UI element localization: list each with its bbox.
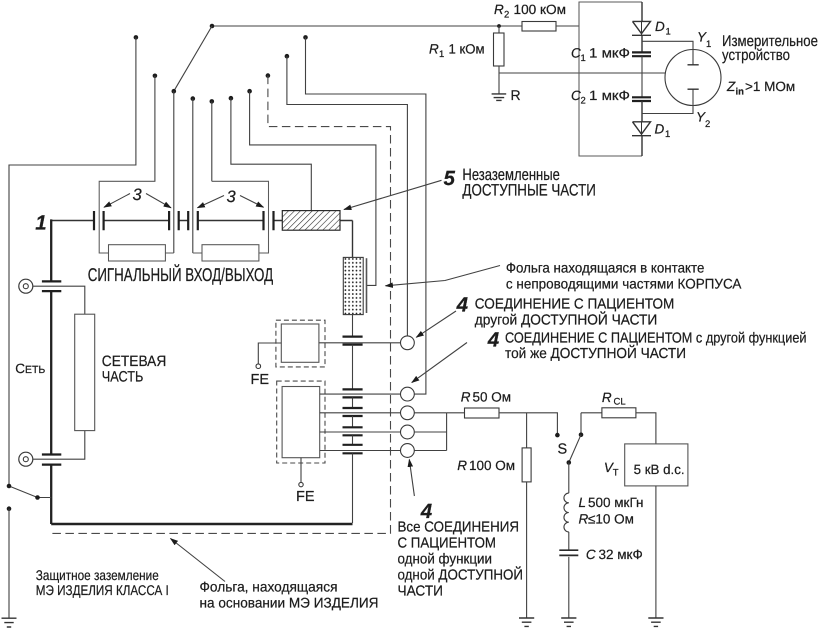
svg-text:FE: FE <box>296 489 315 505</box>
svg-text:100 кОм: 100 кОм <box>514 2 567 17</box>
svg-text:≤10 Ом: ≤10 Ом <box>588 512 634 527</box>
svg-text:4: 4 <box>456 294 469 317</box>
svg-text:Все СОЕДИНЕНИЯ: Все СОЕДИНЕНИЯ <box>398 520 520 536</box>
inductor L 500 мкГн <box>564 493 569 532</box>
svg-text:L: L <box>579 495 587 510</box>
label Все СОЕДИНЕНИЯ С ПАЦИЕНТОМ одной функции одной ДОСТУПНОЙ ЧАСТИ <box>398 520 524 600</box>
svg-text:с непроводящими частями КОРПУС: с непроводящими частями КОРПУСА <box>506 276 742 292</box>
svg-text:500 мкГн: 500 мкГн <box>588 495 643 510</box>
arrow 3 to left capacitor module1 <box>104 194 130 208</box>
mains part box <box>75 314 95 430</box>
FE box 1 dashed <box>276 320 325 367</box>
label R<=10 Ом <box>579 512 634 527</box>
resistor R 50 Ом <box>465 408 500 418</box>
diode D1 bottom <box>632 101 651 156</box>
wire top horizontal from terminal to R2 <box>212 25 522 27</box>
label СОЕДИНЕНИЕ С ПАЦИЕНТОМ с другой функцией той же ДОСТУПНОЙ ЧАСТИ <box>505 330 807 362</box>
resistor R2 <box>522 22 556 32</box>
label СЕТЕВАЯ ЧАСТЬ <box>102 353 167 385</box>
svg-text:1 мкФ: 1 мкФ <box>589 88 630 103</box>
terminal T2 dot <box>210 24 215 29</box>
capacitor plates mains entry bottom <box>42 455 61 465</box>
FE box 2 dashed <box>277 381 325 463</box>
label Фольга, находящаяся на основании МЭ ИЗДЕЛИЯ <box>200 579 379 611</box>
svg-text:1 мкФ: 1 мкФ <box>589 46 630 61</box>
diode D1 top <box>632 2 651 52</box>
wire T8 to foil plate <box>250 91 376 285</box>
wire mid node R to measuring device <box>499 72 665 74</box>
svg-text:S: S <box>558 442 568 458</box>
wire T1 to protective earth rail <box>9 37 136 486</box>
FE box 2 inner <box>282 387 320 458</box>
patient connection circle 2 <box>401 387 415 401</box>
svg-text:ЧАСТИ: ЧАСТИ <box>398 584 444 600</box>
label Фольга находящаяся в контакте с непроводящими частями КОРПУСА <box>506 260 742 292</box>
svg-text:ДОСТУПНЫЕ ЧАСТИ: ДОСТУПНЫЕ ЧАСТИ <box>462 182 596 200</box>
svg-text:50 Ом: 50 Ом <box>473 390 512 405</box>
node junction R1/R2 <box>497 24 501 28</box>
svg-text:5: 5 <box>444 167 456 190</box>
label VT <box>604 460 619 479</box>
node PE bottom <box>7 506 12 511</box>
svg-text:R: R <box>511 87 521 103</box>
arrow block2 to patient connection 2 <box>412 343 467 383</box>
patient connection circle 1 <box>401 336 415 350</box>
svg-text:1 кОм: 1 кОм <box>449 42 485 57</box>
node PE stub <box>35 495 40 500</box>
wire column to enclosure bottom <box>352 453 354 523</box>
source VT box <box>625 444 688 486</box>
svg-text:R: R <box>494 2 504 17</box>
resistor R 100 Ом <box>522 448 531 482</box>
wire T7 to hatched accessible part <box>231 98 311 210</box>
signal module 2 outline <box>193 181 269 253</box>
terminal T10 dot <box>285 54 290 59</box>
wire T3 to module1 top <box>154 76 156 182</box>
svg-text:устройство: устройство <box>722 47 790 64</box>
wire junction to R1 <box>498 26 500 33</box>
wire T10 to patient connection 1 <box>287 56 408 336</box>
label L 500 мкГн <box>579 495 644 510</box>
label СОЕДИНЕНИЕ С ПАЦИЕНТОМ другой ДОСТУПНОЙ ЧАСТИ <box>475 297 675 329</box>
capacitor pair patient 1 <box>343 337 363 345</box>
arrow foil bottom label to dashed line <box>171 539 226 582</box>
svg-text:другой ДОСТУПНОЙ ЧАСТИ: другой ДОСТУПНОЙ ЧАСТИ <box>475 311 658 329</box>
enclosure top edge segments <box>51 221 352 258</box>
label C 32 мкФ <box>586 547 643 562</box>
svg-text:С ПАЦИЕНТОМ: С ПАЦИЕНТОМ <box>398 536 497 552</box>
wire mains top to mains part <box>33 286 85 314</box>
svg-text:100 Ом: 100 Ом <box>469 458 515 473</box>
svg-text:одной функции: одной функции <box>398 552 493 568</box>
wire FE1 to patient connection 1 <box>319 342 401 344</box>
label R2 100 кОм <box>494 2 566 21</box>
svg-text:R: R <box>579 512 589 527</box>
measuring network box <box>579 2 642 156</box>
svg-text:3: 3 <box>133 186 143 204</box>
wire S pole to inductor <box>568 463 570 494</box>
svg-text:R: R <box>429 42 439 57</box>
wire junction to R100 <box>526 413 528 448</box>
svg-text:C: C <box>586 547 596 562</box>
wire VT to ground <box>655 486 657 618</box>
wire mains bottom to mains part <box>33 431 85 460</box>
wire T11 to patient connection 2 <box>306 37 426 394</box>
patient connection circle 3 <box>401 406 415 420</box>
terminal T3 dot <box>153 74 158 79</box>
wire FE2 to patient connection 4 <box>320 431 401 433</box>
svg-text:CL: CL <box>614 397 626 408</box>
measuring device circle <box>665 50 721 106</box>
wire C to ground <box>568 557 570 618</box>
patient connection circle 4 <box>401 425 415 439</box>
capacitor pair patient 2 <box>343 389 363 397</box>
wire column <box>352 435 354 445</box>
wire patient bus vertical <box>446 413 448 451</box>
plate Y1 <box>688 64 699 66</box>
wire Y1 <box>642 41 693 65</box>
wire module1 right edge <box>173 91 175 253</box>
svg-text:D: D <box>655 122 665 137</box>
svg-text:2: 2 <box>581 96 586 107</box>
FE box 1 inner <box>281 324 319 362</box>
wire R1 to ground R <box>498 66 500 94</box>
wire PE to ground <box>8 509 10 618</box>
wire FE2 stub <box>300 458 302 483</box>
svg-text:ЧАСТЬ: ЧАСТЬ <box>102 368 144 385</box>
svg-text:2: 2 <box>705 119 710 130</box>
svg-text:R: R <box>602 390 612 405</box>
wire patient 4 to bus <box>414 431 446 433</box>
resistor box module 2 <box>202 245 259 261</box>
switch S left contact <box>555 433 560 438</box>
wire inductor to capacitor C <box>568 532 570 551</box>
svg-text:1: 1 <box>706 39 711 50</box>
switch S right contact <box>579 432 584 437</box>
svg-text:C: C <box>571 88 581 103</box>
svg-text:FE: FE <box>251 372 270 388</box>
label Измерительное устройство <box>722 33 818 64</box>
terminal T8 dot <box>247 89 252 94</box>
svg-text:Фольга находящаяся в контакте: Фольга находящаяся в контакте <box>506 260 705 276</box>
label R 50 Ом <box>461 390 511 405</box>
svg-text:3: 3 <box>227 188 237 206</box>
terminal T5 dot <box>191 96 196 101</box>
wire column <box>352 345 354 390</box>
capacitor pair patient 4 <box>343 427 363 435</box>
wire FE2 to patient connection 5 <box>320 450 401 452</box>
svg-text:2: 2 <box>504 10 509 21</box>
wire Y2 <box>642 89 693 113</box>
terminal T6 dot <box>210 99 215 104</box>
wire column <box>352 416 354 427</box>
label C1 1 мкФ <box>571 46 630 64</box>
signal module 1 outline <box>99 181 174 253</box>
svg-text:СОЕДИНЕНИЕ С ПАЦИЕНТОМ с друго: СОЕДИНЕНИЕ С ПАЦИЕНТОМ с другой функцией <box>505 330 807 346</box>
node PE top <box>7 484 12 489</box>
wire R50 to switch S <box>499 413 557 433</box>
wire diagonal T2 to module1 right edge <box>174 26 212 91</box>
label Защитное заземление МЭ ИЗДЕЛИЯ КЛАССА I <box>36 567 169 598</box>
plate Y2 <box>688 88 699 90</box>
wire patient 5 to bus <box>414 450 446 452</box>
wire RCL to VT box <box>636 413 656 444</box>
svg-text:той же ДОСТУПНОЙ ЧАСТИ: той же ДОСТУПНОЙ ЧАСТИ <box>505 344 686 362</box>
capacitor plates mains entry top <box>42 281 61 291</box>
ground PE <box>2 618 17 627</box>
switch S pole <box>567 460 572 465</box>
svg-text:СЕТЬ: СЕТЬ <box>15 361 45 376</box>
wire bus to R 50 <box>447 412 465 414</box>
terminal T1 dot <box>134 35 139 40</box>
wire T5 module2 left edge <box>192 99 194 253</box>
svg-text:МЭ ИЗДЕЛИЯ КЛАССА I: МЭ ИЗДЕЛИЯ КЛАССА I <box>36 582 169 598</box>
capacitor C1 <box>632 52 651 56</box>
switch PE blade <box>9 486 51 498</box>
wire FE1 to FE stub <box>258 343 281 364</box>
wire C1 to mid node <box>641 56 643 97</box>
arrow 3 to left capacitor module2 <box>198 196 225 208</box>
wire dashed foil path <box>51 76 390 534</box>
label C2 1 мкФ <box>571 88 630 107</box>
capacitor bars signal module walls <box>94 211 274 230</box>
label Zin>1 МОм <box>726 79 795 98</box>
arrow block1 to patient connection 1 <box>416 311 456 337</box>
FE2 terminal circle <box>299 482 303 486</box>
label D1 top <box>655 19 671 38</box>
terminal T9 dot (foil dashed) <box>266 73 271 78</box>
svg-text:на основании МЭ ИЗДЕЛИЯ: на основании МЭ ИЗДЕЛИЯ <box>200 595 379 611</box>
ground C <box>561 618 576 626</box>
svg-text:Z: Z <box>726 79 736 94</box>
svg-text:T: T <box>613 468 619 479</box>
label D1 bottom <box>655 122 671 141</box>
label R1 1 кОм <box>429 42 485 61</box>
svg-text:Фольга, находящаяся: Фольга, находящаяся <box>200 579 338 595</box>
patient connection circle 5 <box>401 444 415 458</box>
svg-text:Защитное заземление: Защитное заземление <box>36 567 159 583</box>
wire RCL branch down <box>580 413 582 433</box>
label Незаземленные ДОСТУПНЫЕ ЧАСТИ <box>462 166 596 200</box>
capacitor C 32 мкФ <box>559 550 578 555</box>
terminal T7 dot <box>229 96 234 101</box>
foil in contact with enclosure (stippled) <box>343 257 363 314</box>
switch S blade <box>569 435 581 463</box>
enclosure bottom edge <box>51 523 352 526</box>
wire T6 to module2 top <box>211 101 213 181</box>
svg-text:СОЕДИНЕНИЕ С ПАЦИЕНТОМ: СОЕДИНЕНИЕ С ПАЦИЕНТОМ <box>475 297 675 313</box>
svg-text:4: 4 <box>487 328 500 351</box>
hatched box ungrounded accessible part <box>282 211 340 231</box>
arrow block3 to patient connection 5 <box>409 460 414 497</box>
svg-text:одной ДОСТУПНОЙ: одной ДОСТУПНОЙ <box>398 566 524 584</box>
wire R2 to measuring box <box>556 25 579 27</box>
arrow 3 to right capacitor module2 <box>240 196 264 208</box>
FE1 terminal circle <box>256 364 261 369</box>
svg-text:D: D <box>655 19 665 34</box>
wire RCL horizontal <box>581 412 602 414</box>
resistor R1 <box>494 33 505 66</box>
foil coupling plate <box>366 258 368 313</box>
terminal T4 dot <box>172 89 177 94</box>
resistor box module 1 <box>109 245 166 261</box>
arrow 3 to right capacitor module1 <box>146 194 171 208</box>
svg-text:1: 1 <box>665 129 670 140</box>
wire patient 3 to bus <box>414 412 446 414</box>
mains connector circle top <box>19 279 33 293</box>
capacitor C2 <box>632 97 651 101</box>
svg-text:32 мкФ: 32 мкФ <box>599 547 643 562</box>
capacitor pair patient 3 <box>343 408 363 416</box>
wire FE2 to patient connection 2 <box>320 393 401 395</box>
svg-text:C: C <box>571 46 581 61</box>
svg-text:5 кВ d.c.: 5 кВ d.c. <box>634 462 685 477</box>
svg-text:in: in <box>736 87 745 98</box>
wire R100 to ground <box>526 482 528 618</box>
ground VT <box>648 618 663 626</box>
ground R <box>492 94 507 101</box>
label RCL <box>602 390 626 408</box>
terminal T11 dot <box>303 35 308 40</box>
svg-text:СИГНАЛЬНЫЙ ВХОД/ВЫХОД: СИГНАЛЬНЫЙ ВХОД/ВЫХОД <box>88 264 274 285</box>
svg-text:>1 МОм: >1 МОм <box>745 79 795 94</box>
svg-text:1: 1 <box>439 49 444 60</box>
arrow foil label to plate junction <box>386 266 501 286</box>
label R 100 Ом <box>457 458 515 473</box>
wire FE2 to patient connection 3 <box>320 412 401 414</box>
svg-text:R: R <box>461 390 471 405</box>
mains connector circle bottom <box>19 452 33 466</box>
svg-text:R: R <box>457 458 467 473</box>
svg-text:1: 1 <box>35 212 46 235</box>
capacitor pair patient 5 <box>343 445 363 454</box>
resistor RCL <box>602 408 636 418</box>
svg-text:1: 1 <box>581 53 586 64</box>
enclosure left edge with capacitor gaps <box>50 219 52 524</box>
ground R100 <box>519 618 534 626</box>
arrow 5 to hatched box <box>344 180 442 209</box>
wire foil bottom to patient capacitor column <box>352 315 354 337</box>
wire column <box>352 397 354 408</box>
svg-text:1: 1 <box>666 27 671 38</box>
label Y2 <box>696 110 710 131</box>
label Y1 <box>697 30 711 51</box>
